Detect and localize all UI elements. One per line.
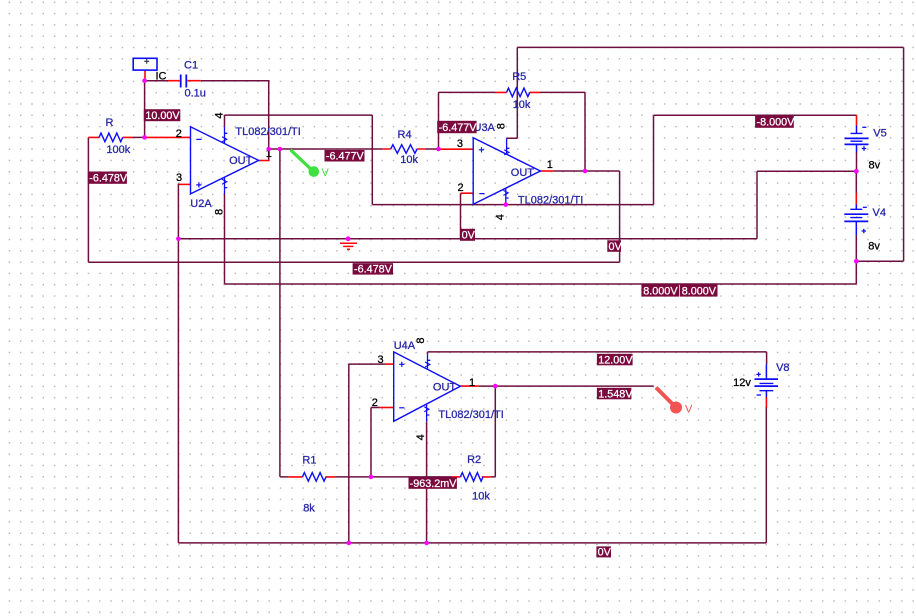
wire: U2A pin3 down to ground rail [177, 184, 179, 239]
label R2 [467, 454, 481, 466]
node: ground symbol junction [346, 236, 351, 241]
node: U2A output left [266, 147, 271, 152]
wire: V8 bottom to rail [765, 406, 767, 543]
pin 8 U3A [496, 123, 508, 129]
pin 1 U2A [266, 148, 272, 160]
wire: U4A pin3 net [349, 364, 394, 543]
wire: U3A pin1 stub and output run [540, 170, 619, 172]
wire: V+ net U3A pin8 top loop [507, 47, 904, 261]
net label 12.00V [597, 354, 633, 367]
label 8v V5 [869, 160, 881, 172]
svg-text:TL082/301/TI: TL082/301/TI [235, 126, 300, 138]
svg-text:8: 8 [496, 123, 508, 129]
svg-text:1.548V: 1.548V [598, 388, 633, 400]
svg-text:V4: V4 [873, 207, 886, 219]
svg-text:V8: V8 [776, 362, 789, 374]
label 10k R4 [400, 154, 418, 166]
label 12v [733, 377, 751, 389]
svg-text:V5: V5 [873, 127, 886, 139]
net label -6.478V left [88, 172, 128, 185]
svg-text:8v: 8v [869, 160, 881, 172]
red voltage probe [656, 388, 693, 416]
wire: R1 connections [280, 476, 371, 478]
pin 3 U2A [176, 172, 182, 184]
label V8 [776, 362, 789, 374]
wire: U2A pin2 stub [145, 136, 191, 138]
label OUT U4A [433, 382, 457, 394]
svg-text:IC: IC [156, 71, 167, 83]
net label 0V a [460, 229, 476, 242]
wire: U4A pin4 down to rail [426, 421, 428, 543]
resistor R5 [496, 88, 540, 97]
wire: U3A pin2 stub to ground [461, 193, 474, 239]
label 10k R5 [513, 99, 531, 111]
label 0.1u [185, 88, 206, 100]
svg-text:C1: C1 [184, 60, 198, 72]
svg-text:1: 1 [469, 377, 475, 389]
svg-text:0V: 0V [598, 547, 612, 559]
svg-text:3: 3 [176, 172, 182, 184]
label OUT U3A [511, 167, 535, 179]
svg-text:-6.477V: -6.477V [326, 151, 365, 163]
node: U3A output [583, 169, 588, 174]
pin 1 U4A [469, 377, 475, 389]
battery V5 [845, 115, 869, 171]
wire: U2A pin3 stub [178, 183, 190, 185]
label R1 [302, 455, 316, 467]
pin 4 U3A [495, 214, 507, 220]
svg-text:OUT: OUT [511, 167, 535, 179]
wire: U2A output node to R4 [268, 148, 382, 150]
resistor R1 [289, 473, 336, 482]
wire: V- net U2A pin4 to V5 [225, 115, 857, 205]
net label 1.548V [597, 388, 633, 401]
node: R1-R2 junction [369, 475, 374, 480]
label V4 [873, 207, 886, 219]
svg-text:U2A: U2A [190, 198, 212, 210]
svg-text:3: 3 [457, 138, 463, 150]
svg-text:TL082/301/TI: TL082/301/TI [518, 195, 583, 207]
svg-text:8v: 8v [868, 241, 880, 253]
label U4A [394, 340, 416, 352]
wire: left vertical from R [87, 137, 89, 262]
svg-text:3: 3 [378, 354, 384, 366]
svg-text:10.00V: 10.00V [145, 110, 180, 122]
node: U2A output right [278, 147, 283, 152]
capacitor C1 [168, 75, 201, 88]
wire: R5 right to U3A output [540, 92, 585, 171]
svg-text:U3A: U3A [474, 122, 496, 134]
svg-text:12.00V: 12.00V [598, 354, 633, 366]
svg-text:2: 2 [372, 397, 378, 409]
pin 4 U4A [415, 434, 427, 440]
svg-text:-8.000V: -8.000V [757, 117, 796, 129]
svg-text:OUT: OUT [433, 382, 457, 394]
node: U4A output [493, 384, 498, 389]
node: rail pin3 [347, 541, 352, 546]
wire: ground rail to battery midpoint [178, 171, 856, 239]
wire: R5 left vertical [438, 92, 440, 149]
label TL082/301/TI U2A [235, 126, 300, 138]
label TL082/301/TI U3A [518, 195, 583, 207]
wire: R5 left horizontal [439, 91, 496, 93]
label R4 [398, 129, 412, 141]
pin 8 U2A [214, 209, 226, 215]
svg-text:-6.477V: -6.477V [439, 122, 478, 134]
svg-text:0V: 0V [609, 241, 623, 253]
pin 1 U3A [547, 159, 553, 171]
label OUT U2A [229, 155, 253, 167]
wire: IC node to C1 left [145, 80, 168, 82]
wire: R right lead to pin2 junction [133, 136, 146, 138]
pin 2 U3A [458, 182, 464, 194]
wire: C1 right to U2A output [201, 80, 269, 161]
label U3A [474, 122, 496, 134]
wire: R4 to U3A pin3 [426, 148, 474, 150]
node: R / pin2 junction [142, 135, 147, 140]
ground [340, 243, 357, 249]
op-amp U2A [191, 127, 259, 194]
pin 3 U4A [378, 354, 384, 366]
svg-text:8: 8 [415, 338, 427, 344]
wire: 12V net U4A pin8 to V8 [428, 352, 767, 365]
svg-text:100k: 100k [106, 144, 130, 156]
label TL082/301/TI U4A [438, 409, 503, 421]
svg-text:4: 4 [214, 112, 226, 118]
pin 8 U4A [415, 338, 427, 344]
green voltage probe [291, 150, 330, 179]
label R [106, 117, 114, 129]
svg-text:TL082/301/TI: TL082/301/TI [438, 409, 503, 421]
pin 2 U4A [372, 397, 378, 409]
svg-text:12v: 12v [733, 377, 751, 389]
wire: U3A output down to feedback rail [619, 171, 621, 262]
battery V4 [844, 171, 868, 261]
net label -8.000V [755, 116, 795, 129]
pin 4 U2A [214, 112, 226, 118]
svg-text:R4: R4 [398, 129, 412, 141]
label IC [156, 71, 167, 83]
svg-text:1: 1 [547, 159, 553, 171]
resistor R4 [382, 145, 425, 154]
wire: long left vertical to bottom rail [177, 239, 179, 543]
svg-text:2: 2 [458, 182, 464, 194]
wire: U4A pin2 net [371, 408, 394, 477]
svg-text:8: 8 [214, 209, 226, 215]
label 8v V4 [868, 241, 880, 253]
net label 0V b [607, 240, 622, 253]
node: U3A pin4 junction [504, 202, 509, 207]
svg-text:8k: 8k [303, 503, 315, 515]
svg-text:R1: R1 [302, 455, 316, 467]
svg-text:-963.2mV: -963.2mV [410, 478, 458, 490]
op-amp U3A [473, 138, 540, 205]
op-amp U4A [394, 352, 461, 421]
pin 3 U3A [457, 138, 463, 150]
svg-text:4: 4 [495, 214, 507, 220]
node: V4 bottom [854, 259, 859, 264]
label U2A [190, 198, 212, 210]
svg-text:OUT: OUT [229, 155, 253, 167]
svg-text:10k: 10k [400, 154, 418, 166]
net label 8.000V left [641, 285, 679, 298]
wire: R1-R2 node to R2 [371, 476, 452, 478]
svg-text:8.000V: 8.000V [643, 285, 678, 297]
node: ground rail left [176, 237, 181, 242]
svg-text:-6.478V: -6.478V [89, 172, 128, 184]
label V5 [873, 127, 886, 139]
svg-text:R: R [106, 117, 114, 129]
svg-text:10k: 10k [472, 491, 490, 503]
wire: U2A pin1 stub [259, 160, 270, 162]
net label 10.00V [144, 109, 181, 122]
net label -6.478V feedback [353, 263, 393, 276]
wire: feedback rail -6.478V [88, 261, 619, 263]
wire: IC node down to R junction [144, 81, 146, 138]
wire: long vertical U2A output to R1 [279, 149, 281, 477]
svg-text:0.1u: 0.1u [185, 88, 206, 100]
node: battery midpoint [854, 169, 859, 174]
svg-text:10k: 10k [513, 99, 531, 111]
svg-text:4: 4 [415, 434, 427, 440]
label 10k R2 [472, 491, 490, 503]
label 100k [106, 144, 130, 156]
node: R4 / R5 / pin3 junction [436, 147, 441, 152]
node: rail pin4 [424, 541, 429, 546]
svg-text:0V: 0V [462, 230, 476, 242]
resistor R2 [452, 473, 491, 482]
net label 0V bottom [596, 546, 611, 558]
svg-text:2: 2 [176, 128, 182, 140]
label 8k [303, 503, 315, 515]
svg-text:-6.478V: -6.478V [354, 264, 393, 276]
net label -6.477V right [437, 121, 477, 134]
label C1 [184, 60, 198, 72]
wire: U4A pin1 stub and output run [460, 385, 653, 387]
IC initial condition box [133, 58, 157, 81]
svg-text:V: V [685, 404, 693, 416]
net label -6.477V mid [325, 150, 365, 163]
node: IC junction [142, 78, 147, 83]
svg-text:R5: R5 [512, 71, 526, 83]
wire: R2 to U4A output [491, 386, 496, 477]
battery V8 [755, 365, 779, 408]
wire: bottom ground rail [178, 542, 766, 544]
net label 8.000V right [680, 285, 718, 298]
svg-text:U4A: U4A [394, 340, 416, 352]
wire: V+ net U2A pin8 to V4 [225, 194, 857, 284]
pin 2 U2A [176, 128, 182, 140]
net label -963.2mV [409, 477, 458, 490]
label R5 [512, 71, 526, 83]
svg-text:V: V [322, 167, 330, 179]
resistor R [88, 133, 132, 142]
svg-text:R2: R2 [467, 454, 481, 466]
svg-text:8.000V: 8.000V [682, 285, 717, 297]
